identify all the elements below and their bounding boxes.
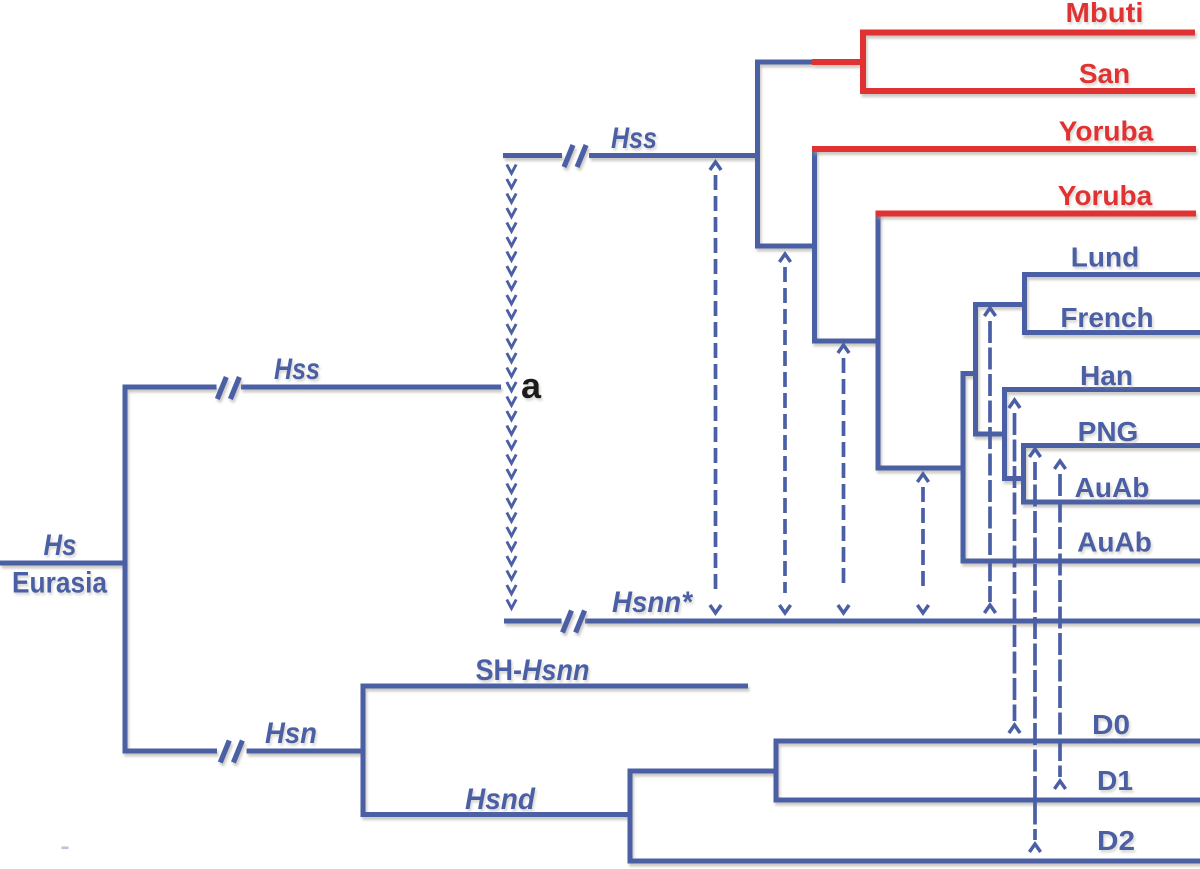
svg-text:Hsnd: Hsnd	[465, 783, 536, 816]
svg-text:Eurasia: Eurasia	[12, 567, 107, 600]
svg-text:AuAb: AuAb	[1075, 472, 1150, 503]
node Lund-French vertical	[1022, 272, 1027, 335]
wire Hsn branch left segment	[123, 749, 218, 754]
node AuAb2 vertical	[961, 371, 966, 564]
break on Hsn branch	[220, 741, 229, 763]
wire Yoruba1 node stem	[755, 244, 817, 249]
wire Eurasian top stem	[961, 371, 979, 376]
break on Hsnn* line	[563, 611, 572, 633]
wire Hss upper branch right segment	[589, 153, 760, 158]
wire Mbuti-San stem blue part	[758, 60, 813, 65]
tip line French	[1022, 330, 1200, 335]
tip line D0	[774, 739, 1200, 744]
svg-text:Yoruba: Yoruba	[1059, 116, 1154, 147]
tip line San	[860, 88, 1195, 94]
tip line Yoruba first	[812, 146, 1196, 152]
node Mbuti-San red vertical	[860, 30, 866, 94]
node Hsnd vertical	[628, 769, 633, 864]
svg-text:Hss: Hss	[611, 122, 657, 155]
svg-text:PNG: PNG	[1078, 416, 1139, 447]
node PNG-AuAb vertical	[1021, 443, 1026, 505]
tip line PNG	[1021, 443, 1200, 448]
svg-text:Hsn: Hsn	[265, 717, 317, 750]
stray light mark bottom left	[62, 847, 69, 850]
break on Hss root branch	[217, 377, 226, 399]
break on Hss upper branch	[564, 145, 573, 167]
dashed gene-flow arrow D0 to Han	[1009, 400, 1020, 733]
wire Mbuti-San stem red part	[812, 59, 866, 65]
dashed gene-flow arrow D2 to PNG	[1029, 449, 1040, 852]
tip line AuAb first	[1021, 500, 1200, 505]
node Yoruba2 vertical	[876, 211, 881, 471]
dashed gene-flow arrow #3	[838, 345, 849, 613]
node Yoruba1 vertical	[812, 147, 817, 344]
wire AuAb2 node stem	[876, 466, 966, 471]
node Hsn vertical	[361, 684, 366, 818]
tip line AuAb second	[961, 559, 1200, 564]
wire Yoruba2 node stem	[812, 339, 881, 344]
gene-flow chevron column at node a	[507, 165, 516, 609]
svg-text:Lund: Lund	[1071, 242, 1139, 273]
tip line Lund	[1022, 272, 1200, 277]
node D0-D1 vertical	[774, 739, 779, 803]
svg-text:Yoruba: Yoruba	[1058, 180, 1153, 211]
node Hs root stem	[0, 561, 128, 566]
dashed gene-flow arrow Hss to Hsnn* (double headed) #1	[710, 162, 721, 613]
svg-text:San: San	[1079, 58, 1130, 89]
svg-text:Han: Han	[1080, 360, 1133, 391]
wire Hss upper branch left segment	[503, 153, 562, 158]
svg-text:a: a	[521, 365, 542, 406]
node Lund-French-Han vertical	[973, 302, 978, 437]
wire D0-D1 stem	[628, 769, 779, 774]
wire Hss root branch left segment	[123, 385, 217, 390]
tip line Yoruba second	[876, 211, 1197, 217]
svg-text:D1: D1	[1097, 765, 1133, 796]
svg-text:Hss: Hss	[274, 353, 320, 386]
wire Lund-French stem	[973, 302, 1027, 307]
root vertical	[123, 387, 128, 751]
svg-text:AuAb: AuAb	[1077, 527, 1152, 558]
svg-text:Hsnn*: Hsnn*	[612, 586, 693, 619]
tip line D2	[628, 859, 1200, 864]
wire Hss root branch right segment	[241, 385, 501, 390]
svg-text:Mbuti: Mbuti	[1066, 0, 1144, 28]
svg-text:D0: D0	[1092, 709, 1130, 740]
wire Hsnn* line left segment	[504, 619, 562, 624]
tip line Mbuti	[860, 30, 1195, 36]
svg-text:D2: D2	[1097, 825, 1135, 856]
node modern-human clade vertical	[755, 60, 760, 249]
dashed gene-flow arrow D1 to AuAb	[1054, 461, 1065, 789]
wire Hsn branch right segment	[247, 749, 366, 754]
svg-text:SH-Hsnn: SH-Hsnn	[476, 654, 590, 687]
tip line Han	[1002, 387, 1200, 392]
dashed gene-flow arrow #4	[917, 474, 928, 613]
svg-text:French: French	[1060, 302, 1153, 333]
tip line SH-Hsnn	[361, 684, 749, 689]
wire PNG-AuAb stem	[1002, 476, 1026, 481]
dashed gene-flow arrow Hsnn* to Lund-French stem	[984, 308, 995, 613]
node Han vertical	[1002, 387, 1007, 481]
tip line D1	[774, 798, 1200, 803]
svg-text:Hs: Hs	[44, 529, 77, 562]
dashed gene-flow arrow #2	[779, 254, 790, 613]
wire Hsnn* line right segment	[585, 619, 1200, 624]
wire Han clade stem	[973, 432, 1007, 437]
wire Hsnd branch	[361, 812, 633, 817]
